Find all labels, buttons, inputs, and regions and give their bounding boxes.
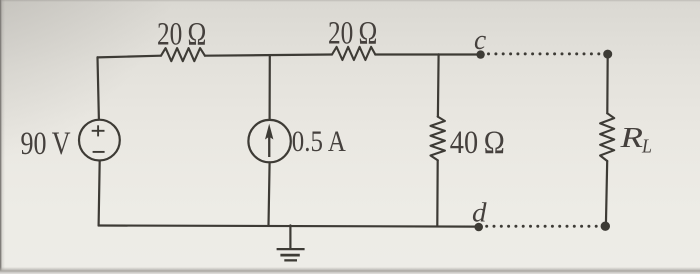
svg-text:R: R xyxy=(619,123,643,154)
voltage source plus sign xyxy=(92,125,105,152)
resistor R2 20ohm zigzag xyxy=(332,47,375,60)
wire top middle horizontal xyxy=(205,55,332,56)
node c junction dot xyxy=(476,50,484,58)
wire middle branch lower xyxy=(269,162,270,225)
wire 40ohm branch lower xyxy=(436,160,439,226)
svg-text:d: d xyxy=(472,196,487,227)
wire 40ohm branch upper xyxy=(437,54,440,116)
svg-text:40 Ω: 40 Ω xyxy=(450,125,505,161)
svg-text:20 Ω: 20 Ω xyxy=(157,17,206,53)
node dot top right xyxy=(603,50,612,59)
wire left vertical lower xyxy=(99,161,100,226)
wire middle branch upper (current source) xyxy=(269,55,271,120)
current source I1 circle xyxy=(248,120,290,162)
svg-text:L: L xyxy=(641,136,652,158)
node dot bottom right xyxy=(601,222,610,231)
dotted wire c to top right xyxy=(487,52,600,55)
dotted wire d to bottom right xyxy=(485,225,598,228)
left page edge shading xyxy=(0,0,2,274)
resistor R1 20ohm zigzag xyxy=(161,48,205,61)
node d junction dot xyxy=(474,223,483,232)
svg-text:c: c xyxy=(474,24,486,56)
svg-text:90 V: 90 V xyxy=(21,126,71,162)
svg-text:20 Ω: 20 Ω xyxy=(328,16,377,52)
wire RL branch lower xyxy=(606,161,607,226)
wire top left horizontal xyxy=(98,56,162,58)
svg-text:0.5 A: 0.5 A xyxy=(292,125,346,158)
wire top right horizontal to node c xyxy=(375,53,478,55)
voltage source V1 circle xyxy=(79,120,120,161)
resistor R3 40ohm zigzag xyxy=(431,117,445,161)
wire left vertical upper xyxy=(98,57,99,119)
wire RL branch upper xyxy=(606,54,609,113)
bottom page edge band xyxy=(0,267,700,274)
current source arrow xyxy=(265,124,273,157)
wire bottom horizontal xyxy=(99,226,475,227)
resistor RL zigzag xyxy=(600,113,614,161)
ground symbol bars xyxy=(277,249,305,261)
voltage source minus sign xyxy=(93,151,105,153)
ground stem wire xyxy=(289,225,291,247)
